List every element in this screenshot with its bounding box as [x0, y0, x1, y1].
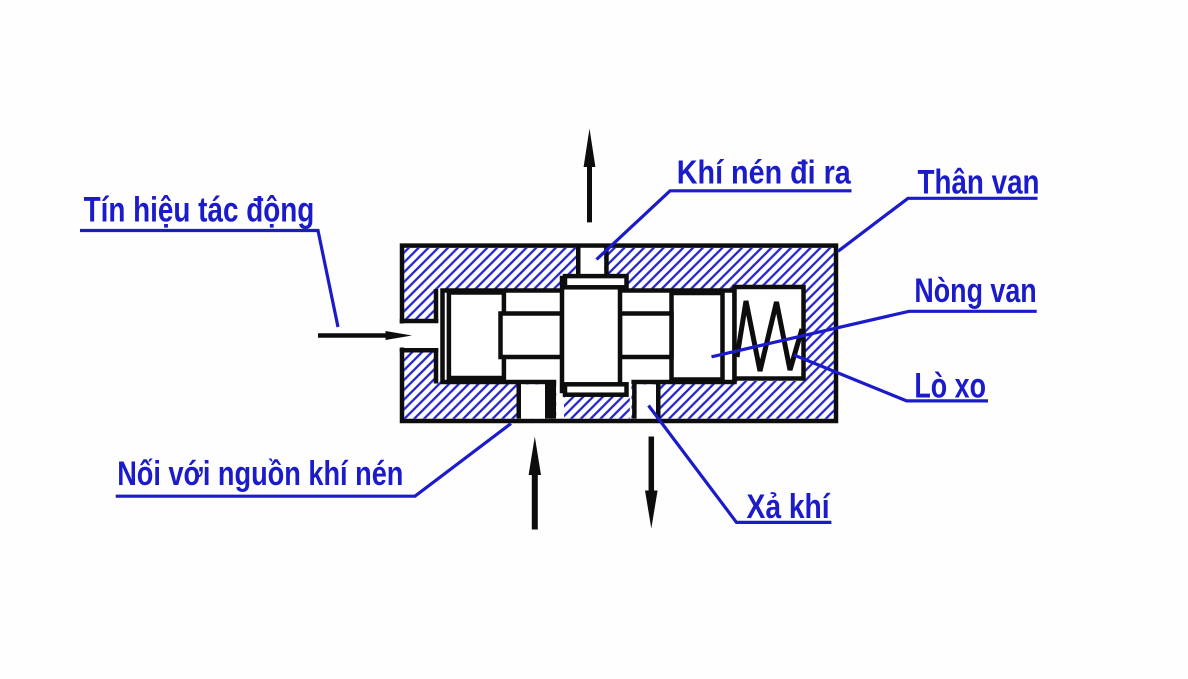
svg-text:Khí nén đi ra: Khí nén đi ra	[677, 155, 851, 192]
svg-text:Nối với nguồn khí nén: Nối với nguồn khí nén	[117, 455, 403, 493]
svg-text:Thân van: Thân van	[918, 163, 1040, 201]
svg-text:Tín hiệu tác động: Tín hiệu tác động	[84, 190, 315, 229]
svg-text:Nòng van: Nòng van	[914, 272, 1036, 310]
svg-text:Lò xo: Lò xo	[914, 366, 986, 405]
svg-text:Xả khí: Xả khí	[747, 488, 831, 526]
